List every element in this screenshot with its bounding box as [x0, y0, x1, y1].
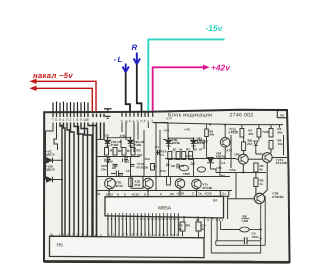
transistor VT4: [192, 179, 202, 189]
diode VD9: [254, 141, 258, 150]
capacitor C1 to ground at top: [104, 109, 112, 119]
IC box M85A: [105, 196, 224, 218]
tiny component labels (blobs): [45, 127, 287, 239]
component box DA1: [131, 176, 143, 188]
connector pins center group: [122, 112, 153, 117]
resistor R8 body oval: [240, 227, 250, 232]
R8 fraction bar: [242, 217, 250, 219]
indicator diode V3B: [166, 138, 172, 148]
resistor R7: [254, 178, 258, 187]
right cluster wires: [217, 125, 287, 241]
IC pin numbers row: [107, 217, 181, 221]
display pin numbers row above H5 box: [50, 232, 178, 237]
cyan -15v wire: [148, 39, 224, 111]
blue arrow L: [123, 64, 129, 73]
capacitor pairs under resistor row: [105, 158, 135, 166]
schematic sheet background: [44, 111, 288, 263]
resistor R10: [196, 222, 201, 231]
diode VD2: [47, 177, 63, 183]
resistor R13: [167, 177, 171, 186]
magenta arrowhead: [203, 65, 210, 70]
transistor VT1: [105, 178, 116, 189]
magenta +42v wire: [153, 67, 204, 111]
bottom right circuit wires: [211, 196, 265, 253]
resistor R19: [269, 141, 273, 150]
wire from corner box down: [227, 196, 229, 219]
wires right of IC to display region: [184, 216, 211, 253]
label near right pins: [166, 117, 172, 121]
transistor VT8: [254, 193, 264, 203]
resistor R12: [129, 178, 133, 187]
transistor VT7: [262, 153, 272, 163]
svg-text:R: R: [132, 43, 138, 52]
IC corner label box: [220, 191, 229, 197]
transistor VT6: [238, 154, 248, 164]
indicator diode V1B: [105, 138, 111, 148]
IC bottom pin ticks: [108, 213, 178, 217]
wire from pin to right area: [153, 122, 168, 124]
capacitor C2: [111, 171, 123, 177]
title box Av: [277, 111, 287, 118]
connector pins left group: [53, 102, 88, 118]
transistor VT2: [143, 178, 153, 188]
capacitor C3: [171, 164, 184, 169]
red filament wire upper: [34, 81, 97, 111]
diode VD1: [47, 158, 63, 164]
indicator diode V2B: [128, 138, 134, 148]
zener VD8: [207, 158, 215, 170]
black wires from L R to sheet: [126, 65, 142, 113]
cluster horizontal rails: [97, 123, 284, 191]
resistor R9: [180, 222, 185, 231]
svg-text:накал ~5v: накал ~5v: [33, 71, 73, 80]
tiny pin numbers under top-left pins: [52, 118, 89, 123]
svg-text:+42v: +42v: [211, 63, 231, 73]
resistor R16: [257, 129, 261, 138]
transistor VT5: [220, 138, 230, 148]
left vertical wire rails to display: [64, 114, 105, 237]
resistors row under lamps: [105, 148, 193, 160]
resistor R6: [254, 163, 258, 172]
red arrowheads: [30, 79, 37, 84]
diode VD1 branch: [46, 123, 54, 161]
svg-text:L: L: [118, 55, 123, 64]
misc cluster verticals: [108, 122, 237, 198]
transistor VT3: [175, 179, 185, 189]
+15v rail: [216, 172, 266, 174]
resistor R15: [240, 129, 244, 138]
trimmer pot RP1: [180, 165, 189, 171]
IC bottom pin wires to display: [108, 216, 178, 237]
resistor R17: [269, 129, 273, 138]
svg-text:-15v: -15v: [206, 23, 224, 33]
junction dot: [260, 228, 262, 230]
tiny pin numbers under center pins: [121, 119, 154, 124]
sheet frame border: [44, 110, 290, 262]
sheet bottom edge emphasis: [44, 260, 290, 264]
scan grain overlay: [44, 111, 289, 263]
indicator diode V4B: [191, 138, 197, 148]
resistor R18: [242, 142, 246, 151]
resistor R4 top center: [205, 129, 209, 137]
capacitor C4 plates: [244, 237, 247, 244]
trimmer pot RP2: [198, 167, 206, 172]
blue arrow R: [134, 53, 140, 65]
display tube H5 box: [50, 236, 205, 257]
